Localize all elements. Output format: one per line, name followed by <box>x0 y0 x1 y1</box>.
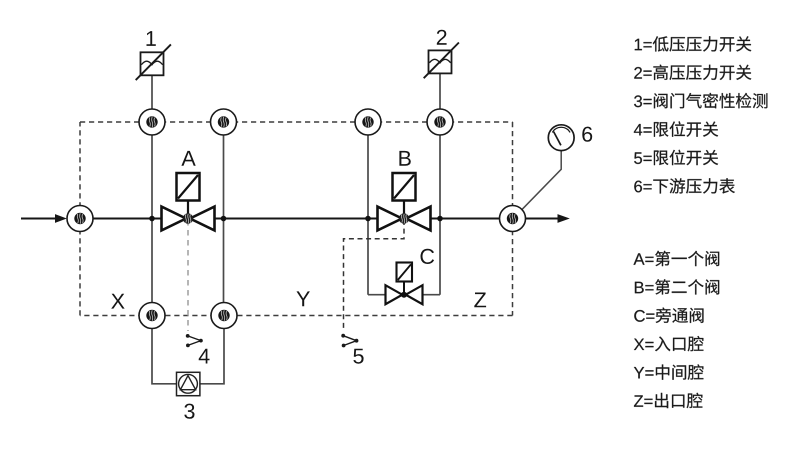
valve A body (bowtie) <box>162 207 215 231</box>
legend line: Y=中间腔 <box>634 364 704 379</box>
gauge needle <box>554 132 561 146</box>
wire: bypass loop left horizontal <box>368 294 386 296</box>
legend line: 6=下游压力表 <box>634 178 735 193</box>
pressure switch 1 wave <box>141 61 162 65</box>
inlet flow arrowhead <box>55 214 67 223</box>
pressure switch 1 (low pressure) box <box>136 44 171 80</box>
valve B center seat (hatched) <box>399 213 409 223</box>
valve B actuator box with diagonal <box>393 173 416 201</box>
pressure switch 2 (high pressure) box <box>424 43 459 79</box>
wire: dashed stem from valve A down to limit switch 4 <box>187 220 189 331</box>
wire: pressure switch 1 drop line <box>151 75 153 109</box>
pressure switch 1 diagonal <box>136 44 171 80</box>
wire: vertical pipe x=152 (top port to bottom port through main line) <box>151 135 153 302</box>
valve C center dot <box>401 292 407 298</box>
label 2 (pressure switch 2) <box>437 30 447 45</box>
wire: main pipe outlet segment <box>526 218 559 220</box>
node: bottom port circle 1 (x=152) <box>139 303 165 329</box>
legend line: A=第一个阀 <box>634 251 720 266</box>
pressure switch 2 wave <box>429 59 450 63</box>
legend line: 2=高压压力开关 <box>634 65 751 80</box>
label B (second valve) <box>399 151 410 166</box>
wire: main pipe Z chamber segment <box>431 218 500 220</box>
valve B stem <box>403 200 405 219</box>
junction dot at valve A left <box>149 216 155 222</box>
legend line: Z=出口腔 <box>634 393 702 408</box>
valve B body (bowtie) <box>378 207 431 231</box>
wire: bypass loop right horizontal <box>423 294 441 296</box>
legend line: B=第二个阀 <box>635 279 719 294</box>
junction dot at valve A right <box>221 216 227 222</box>
pressure gauge 6 <box>548 125 574 151</box>
wire: dashed link from valve B down-left to limit switch 5 <box>344 220 405 331</box>
valve C actuator box with diagonal <box>397 263 413 282</box>
node: top port circle 3 (x=368) <box>355 109 381 135</box>
legend line: C=旁通阀 <box>634 308 703 323</box>
wire: main pipe X chamber segment <box>93 218 162 220</box>
pressure switch 2 diagonal <box>424 43 459 79</box>
label X (inlet chamber) <box>111 294 124 309</box>
wire: gauge connection (vertical then diagonal to outlet port) <box>522 151 562 210</box>
wire: right dashed line <box>512 122 514 316</box>
gauge scale arc <box>552 127 570 132</box>
valve A stem <box>187 200 189 219</box>
wire: vertical pipe x=368 (top port to bypass loop) <box>367 135 369 295</box>
wire: bottom dashed line <box>80 315 513 317</box>
label 3 (tightness tester) <box>184 404 194 419</box>
label 4 (limit switch 4) <box>199 349 210 364</box>
label 6 (pressure gauge) <box>582 127 592 142</box>
label Y (middle chamber) <box>297 291 310 306</box>
legend line: 1=低压压力开关 <box>635 36 752 51</box>
node: inlet port circle <box>67 206 93 232</box>
tightness tester 3 (box with circle and triangle) <box>177 372 200 395</box>
wire: bottom-left port down to tightness tester <box>152 328 176 383</box>
wire: bottom-right port down to tightness tester <box>200 328 224 383</box>
label A (first valve) <box>181 151 195 166</box>
boundary dashed rectangle (valve body envelope) <box>80 122 513 316</box>
legend line: 4=限位开关 <box>634 121 718 137</box>
wire: left dashed line <box>79 122 81 316</box>
limit switch 5 symbol <box>341 334 358 348</box>
node: bottom port circle 2 (x=224) <box>211 303 237 329</box>
node: top port circle 1 (x=152) <box>139 109 165 135</box>
node: top port circle 2 (x=223.5) <box>211 109 237 135</box>
wire: main pipe Y chamber segment <box>215 218 378 220</box>
wire: vertical pipe x=440 (top port to bypass loop) <box>439 135 441 295</box>
label C (bypass valve) <box>421 249 435 264</box>
legend line: 5=限位开关 <box>634 150 718 166</box>
wire: pressure switch 2 drop line <box>439 73 441 109</box>
wire: main pipe inlet segment <box>21 218 57 220</box>
valve C body (bypass bowtie) <box>386 285 423 304</box>
valve C stem <box>403 281 405 295</box>
label 5 (limit switch 5) <box>353 349 363 364</box>
junction dot at valve B right <box>437 216 443 222</box>
legend line: X=入口腔 <box>634 336 704 351</box>
wire: vertical pipe x=223.5 <box>223 135 225 302</box>
valve A actuator box with diagonal <box>177 173 200 201</box>
valve A center seat (hatched) <box>183 213 193 223</box>
junction dot at valve B left <box>365 216 371 222</box>
node: top port circle 4 (x=440) <box>427 109 453 135</box>
label Z (outlet chamber) <box>474 293 486 308</box>
outlet flow arrowhead <box>558 214 570 223</box>
legend line: 3=阀门气密性检测 <box>634 93 767 108</box>
wire: top dashed line <box>80 121 513 123</box>
limit switch 4 symbol <box>186 334 203 347</box>
label 1 (pressure switch 1) <box>147 31 156 46</box>
node: outlet port circle <box>500 206 526 232</box>
